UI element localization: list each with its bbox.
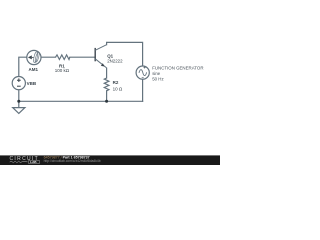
ammeter AM1 [27,50,41,64]
resistor R1 [56,55,70,60]
wire VBB top to AM1 left [19,57,27,77]
svg-text:10 Ω: 10 Ω [113,87,123,92]
wire function generator bottom to rail corner [142,79,144,101]
svg-text:FUNCTION GENERATOR: FUNCTION GENERATOR [152,65,203,70]
resistor R2 [104,78,109,91]
svg-text:50 Hz: 50 Hz [152,76,163,81]
wire R1 right to Q1 base [70,56,95,58]
footer bar [0,155,220,165]
transistor Q1 [95,45,106,68]
svg-text:AM1: AM1 [29,67,39,72]
function generator V1 [136,66,149,79]
wire R2 bottom to bottom rail [106,91,108,102]
svg-text:LAB: LAB [30,160,37,164]
wire emitter to R2 top [106,68,108,78]
voltage source VBB [12,77,25,90]
svg-text:VBB: VBB [27,81,37,86]
logo squiggle [10,161,28,163]
ground [13,108,25,114]
wire bottom rail [19,100,143,102]
wire AM1 right to R1 left [41,56,56,58]
svg-text:http://circuitlab.com/c/z42m4k: http://circuitlab.com/c/z42m4kf8da4k4b [44,159,101,163]
junction dot at VBB / rail [17,100,20,103]
wire collector top rail to function generator top [107,42,143,66]
junction dot at R2 / rail [105,100,108,103]
wire VBB bottom to ground [18,90,20,108]
svg-text:Q1: Q1 [107,53,113,58]
svg-text:R2: R2 [113,80,119,85]
svg-text:100 kΩ: 100 kΩ [55,68,70,73]
svg-text:2N2222: 2N2222 [107,59,123,64]
logo LAB [29,160,40,163]
